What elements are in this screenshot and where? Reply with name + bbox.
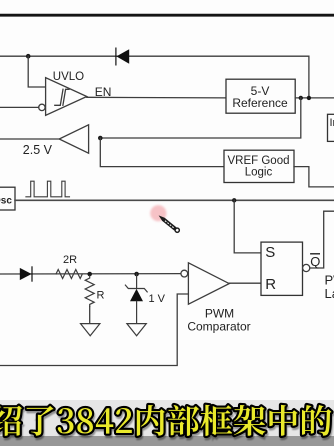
op-amp U2 PWM comparator [188, 263, 229, 304]
svg-text:Q: Q [310, 254, 320, 269]
wire comparator output to R input [229, 282, 261, 284]
node junction ref out B [307, 96, 311, 100]
subtitle text 绍了3842内部框架中的 [0, 407, 333, 438]
wire R to ground [89, 306, 91, 323]
VREF Good Logic box [224, 150, 294, 182]
latch U3 SR box [261, 242, 303, 295]
svg-text:R: R [97, 289, 105, 301]
subtitle band [0, 400, 334, 436]
node junction 2.5V input [98, 136, 103, 141]
wire clock to S input [234, 200, 261, 253]
wire VREF Good Logic output [294, 167, 334, 187]
wire oscillator clock rail [15, 199, 334, 201]
svg-text:VREF Good: VREF Good [228, 155, 290, 167]
wire 2.5V output to left edge [0, 138, 59, 140]
node junction Vcc rail [26, 54, 31, 59]
svg-text:2R: 2R [63, 254, 77, 266]
wire Qbar output [310, 211, 334, 268]
wire UVLO input from rail [28, 56, 45, 87]
5-V Reference box [226, 79, 295, 113]
wire EN output to 5-V Reference [87, 96, 226, 99]
wire branch to VREF Good Logic [100, 138, 224, 167]
svg-text:Reference: Reference [232, 96, 288, 110]
svg-text:Comparator: Comparator [187, 320, 250, 334]
wire comparator lower input [0, 294, 188, 366]
svg-text:La: La [325, 286, 334, 301]
node junction clock to S [232, 198, 236, 202]
top border line [0, 14, 334, 17]
zener diode Z1 1V [125, 274, 147, 323]
svg-text:R: R [265, 276, 276, 293]
svg-text:1 V: 1 V [149, 293, 166, 305]
wire Vcc rail top [0, 56, 309, 98]
latch Qbar bubble [303, 264, 310, 271]
svg-text:PWM: PWM [205, 306, 234, 320]
svg-text:2.5 V: 2.5 V [23, 143, 53, 157]
buffer 2.5V (points left) [59, 125, 88, 153]
node junction ref out A [299, 96, 303, 100]
cursor pen with pink highlight [150, 205, 180, 233]
ground symbol under zener [127, 324, 146, 336]
svg-text:UVLO: UVLO [53, 71, 84, 83]
wire ref to 2.5V divider [100, 98, 300, 138]
wire current-sense rail [0, 273, 181, 275]
Internal Bias box (cut off) [328, 114, 334, 141]
svg-text:Osc: Osc [0, 196, 12, 207]
svg-text:EN: EN [95, 85, 112, 99]
UVLO hysteresis symbol [55, 89, 69, 105]
Osc box (cut off) [0, 187, 15, 210]
clock waveform pulses [26, 181, 70, 197]
Qbar overbar [311, 253, 320, 255]
ground symbol under R [81, 324, 100, 336]
diode D1 (points left) [116, 48, 129, 65]
svg-text:Inte: Inte [330, 117, 334, 129]
svg-text:Logic: Logic [245, 167, 273, 179]
op-amp U1 UVLO comparator [46, 78, 87, 116]
resistor R vertical [85, 276, 94, 306]
node junction R top [87, 272, 92, 277]
node junction zener top [134, 272, 139, 277]
svg-text:S: S [265, 244, 275, 261]
wire 5-V Reference output to right edge [295, 97, 334, 99]
resistor 2R [56, 270, 82, 279]
diode D2 (points right) [20, 267, 32, 281]
PWM comparator inverting bubble [181, 270, 188, 277]
wire UVLO lower input [0, 106, 39, 108]
UVLO inverting input bubble [39, 104, 45, 110]
